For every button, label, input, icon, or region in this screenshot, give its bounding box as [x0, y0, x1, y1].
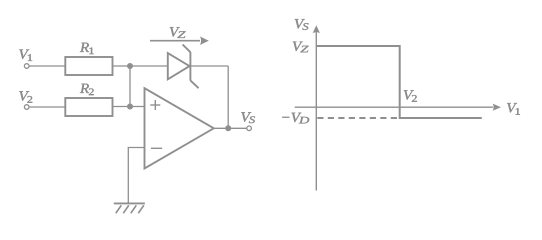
terminal V1 [24, 64, 29, 69]
wire node A to zener anode [130, 65, 168, 67]
transfer curve step [316, 46, 482, 118]
label VS [241, 112, 255, 123]
graph x-axis [295, 104, 501, 111]
graph label VS [295, 19, 309, 30]
wire minus input to ground [128, 148, 144, 204]
wire V1 to R1 [29, 65, 65, 67]
current arrow VZ [150, 36, 209, 45]
resistor R2 [65, 98, 112, 116]
graph label V1 [507, 103, 520, 115]
graph label -VD [282, 113, 309, 124]
wire R1 to node A [113, 65, 131, 67]
ground [114, 203, 145, 213]
dashed level -VD [317, 117, 399, 119]
wire feedback corner down to output node [227, 66, 229, 128]
graph label V2 [404, 90, 417, 101]
wire op-amp output to terminal VS [214, 127, 247, 129]
label V2 [19, 91, 32, 102]
wire node A to node B [129, 66, 131, 107]
junction output node [225, 125, 231, 131]
zener diode DZ [168, 45, 199, 89]
wire V2 to R2 [29, 106, 65, 108]
graph label VZ [293, 42, 309, 53]
label V1 [19, 50, 32, 61]
resistor R1 [65, 57, 112, 75]
junction node B [127, 104, 133, 110]
terminal V2 [24, 105, 29, 110]
label R1 [80, 43, 94, 54]
graph y-axis [313, 25, 320, 190]
junction node A [127, 63, 133, 69]
label VZ [170, 27, 186, 38]
wire R2 to op-amp plus input [113, 106, 145, 108]
label R2 [80, 84, 94, 95]
wire zener cathode to feedback corner [190, 65, 228, 67]
terminal VS [247, 126, 252, 131]
op-amp U1 [145, 88, 214, 168]
